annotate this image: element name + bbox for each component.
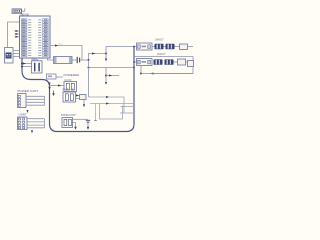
IC U1 pin rows [21, 19, 48, 57]
resistor R3 [80, 95, 87, 100]
junction dots on bus [21, 63, 23, 65]
net arrow stub near PWM-IN [53, 91, 55, 94]
resistor R2 [178, 59, 186, 65]
diode D1 (striped) [155, 44, 164, 49]
box E2 [188, 61, 194, 67]
header H2 [63, 92, 76, 102]
header H1 [64, 82, 77, 92]
wire bus to H1 pin2 [50, 85, 65, 87]
svg-text:1N4007: 1N4007 [155, 38, 165, 42]
fuse F1 on bus [47, 74, 57, 79]
CN3 wires [27, 118, 45, 120]
wire J1 net to IC pin [8, 22, 20, 48]
arrow below CN2 [26, 110, 28, 113]
H2 wires [76, 95, 80, 97]
bus arrows [48, 83, 50, 86]
tap from K2 bottom [140, 66, 142, 74]
wire y97 [89, 97, 125, 113]
wire y103.5 [90, 103, 133, 105]
riser to row1 feed [106, 47, 137, 54]
relay K2 [137, 59, 153, 66]
svg-text:PWM-OUT: PWM-OUT [61, 113, 76, 117]
stub arrow down from node A [105, 54, 107, 60]
svg-text:POWER-UART: POWER-UART [18, 89, 39, 93]
rail wire y67.5 [89, 67, 135, 69]
junction node A [105, 52, 107, 54]
diode D2 (striped) [166, 44, 175, 49]
wire y106.5 short [121, 106, 135, 108]
svg-text:1N4007: 1N4007 [157, 52, 167, 56]
wire F1 to DCDC [56, 76, 63, 78]
component X2 (left module) [5, 48, 14, 64]
arrow near crystal [23, 62, 26, 64]
svg-text:UART: UART [19, 113, 27, 117]
stub arrow below R3 [83, 100, 85, 106]
connector J1 (ISP header top-left) [12, 9, 22, 14]
wire row2 right down [151, 67, 194, 74]
H3 wires [73, 118, 88, 120]
bus wire (thick routed net) [22, 47, 134, 132]
crystal Y1 wires [22, 63, 32, 65]
node VCC junction riser [89, 54, 107, 61]
crystal Y1 [32, 61, 43, 73]
wire y113 [120, 112, 134, 114]
svg-text:PWM-IN: PWM-IN [63, 87, 75, 91]
rail wire y56.5 [134, 57, 193, 63]
row2 left lead [134, 61, 137, 63]
wires X2 to IC [13, 50, 20, 52]
connector CN2 [18, 94, 27, 108]
diode D4 (striped) [165, 59, 174, 64]
svg-text:POWERED: POWERED [64, 73, 81, 77]
header H3 [62, 118, 73, 128]
CN2 wires [26, 95, 45, 97]
capacitor C6 with ground arrow [86, 119, 90, 121]
IC U1 body [20, 16, 51, 58]
left stub arrows into IC [15, 30, 20, 38]
vertical from VCC node down [88, 60, 90, 97]
arrow below CN3 [31, 130, 33, 133]
capacitor C5 [76, 57, 78, 63]
resistor R1 [180, 44, 188, 50]
diode D3 (striped) [154, 59, 163, 64]
stub node B below rail [105, 68, 107, 83]
relay K1 [137, 43, 153, 50]
inductor L1 row [48, 58, 54, 60]
wire from J1 right [22, 8, 25, 11]
wire loop bottom [100, 104, 123, 120]
connector CN3 [18, 117, 28, 130]
loop stub vertical [95, 104, 97, 121]
